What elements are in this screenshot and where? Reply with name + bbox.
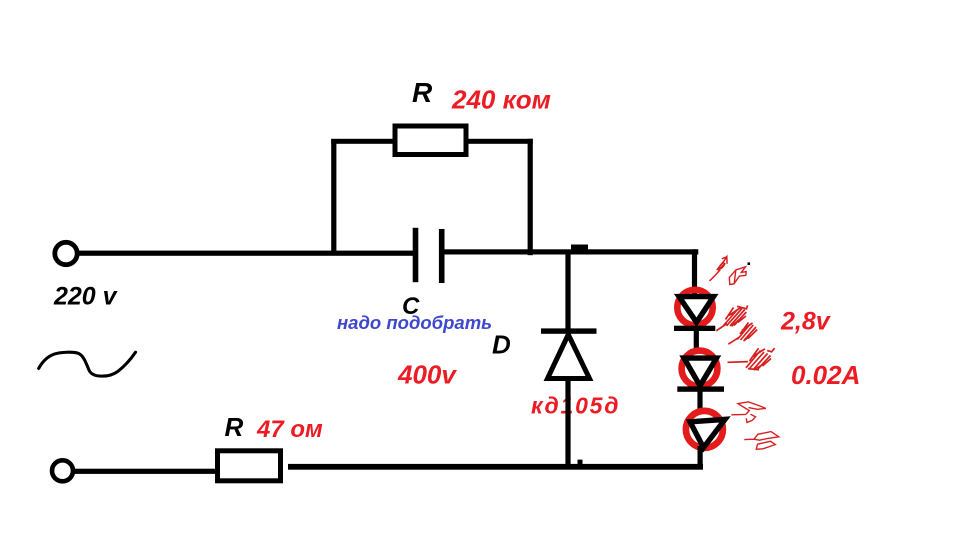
- wire resistor row right: [466, 139, 533, 144]
- svg-text:D: D: [492, 330, 511, 360]
- capacitor C1 left plate: [413, 228, 419, 282]
- LED1 circle: [677, 290, 712, 325]
- junction nub on bottom rail: [578, 460, 583, 465]
- wire diode anode drop: [565, 253, 570, 333]
- svg-text:R: R: [225, 412, 244, 442]
- diode D1 cathode bar: [541, 328, 597, 333]
- stray black dot: [748, 262, 751, 265]
- sparkle scribble S3 (second arrow right of LED1): [728, 323, 757, 345]
- svg-text:47 ом: 47 ом: [256, 416, 323, 443]
- terminal T2 (bottom input): [52, 460, 73, 481]
- junction stub above diode node: [571, 245, 588, 250]
- wire bottom rail left (T2 to R2): [73, 469, 217, 474]
- svg-text:2,8v: 2,8v: [780, 308, 832, 336]
- wire diode lower drop to bottom rail: [565, 377, 570, 466]
- wire branch vertical left (node A up to resistor row): [331, 139, 336, 255]
- AC sine symbol: [39, 352, 136, 376]
- wire branch vertical right (down to main wire): [528, 139, 533, 255]
- sparkle scribble S1b (small plane above LED1): [729, 267, 746, 285]
- resistor R1 body: [395, 126, 466, 155]
- capacitor C1 right plate: [439, 229, 445, 283]
- svg-text:240 ком: 240 ком: [451, 85, 551, 115]
- wire top main left (T1 to capacitor): [78, 251, 413, 256]
- LED2 cathode bar: [677, 386, 724, 391]
- wire LED2 to LED3: [697, 391, 702, 411]
- sparkle scribble S2 (arrow right of LED1): [716, 305, 747, 330]
- LED2 circle: [682, 351, 718, 387]
- wire LED1 to LED2: [694, 329, 699, 349]
- resistor R2 body: [218, 451, 281, 481]
- svg-text:кд105д: кд105д: [531, 393, 620, 419]
- svg-text:надо подобрать: надо подобрать: [337, 312, 492, 333]
- wire LED3 to bottom rail: [698, 446, 703, 467]
- svg-text:220 v: 220 v: [53, 283, 119, 311]
- LED1 cathode bar: [674, 326, 715, 331]
- terminal T1 (top input): [55, 242, 77, 264]
- LED1 triangle: [679, 297, 714, 323]
- wire top main right (capacitor to LED corner): [444, 249, 698, 254]
- svg-text:400v: 400v: [397, 360, 457, 390]
- diode D1 triangle: [548, 335, 590, 379]
- LED3 circle: [686, 411, 723, 448]
- LED2 triangle: [684, 358, 717, 386]
- svg-text:0.02A: 0.02A: [791, 360, 860, 390]
- wire bottom rail right: [288, 464, 703, 470]
- wire resistor row left: [331, 139, 396, 144]
- wire LED branch drop (corner to LED1): [692, 249, 697, 297]
- LED3 triangle: [690, 419, 725, 447]
- sparkle scribble S6 (plane below right of LED3): [744, 432, 779, 450]
- svg-text:R: R: [412, 77, 433, 108]
- sparkle scribble S5 (flag right of LED3): [731, 402, 766, 423]
- sparkle scribble S4 (arrow right of LED2): [728, 348, 775, 370]
- sparkle scribble S1a (lightning above LED1): [710, 257, 728, 281]
